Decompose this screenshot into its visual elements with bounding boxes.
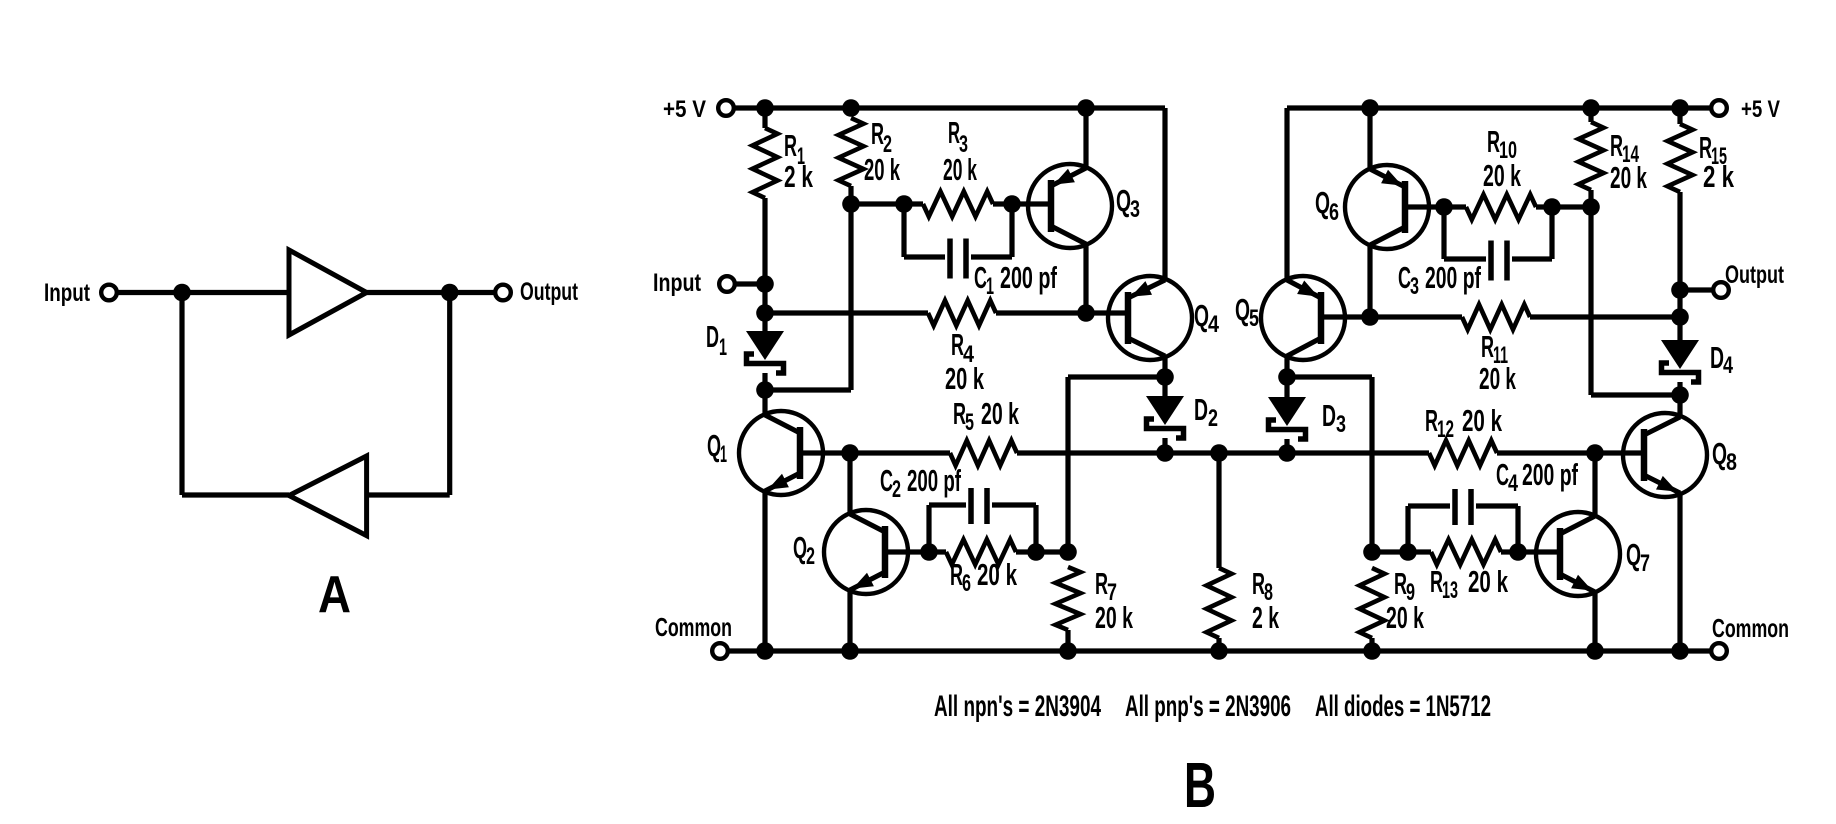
label Output (fig A) [520,278,578,306]
wire [1017,450,1429,455]
node [1586,642,1604,660]
wire [1016,549,1068,554]
node [1509,543,1527,561]
label R8 [1252,566,1273,606]
label R11 [1481,329,1508,369]
svg-text:7: 7 [1640,550,1650,577]
resistor R1 [753,128,778,198]
svg-text:4: 4 [1508,470,1518,497]
wire [929,549,946,554]
node [1671,308,1689,326]
svg-text:20 k: 20 k [1479,361,1516,396]
capacitor C2 [929,488,1036,552]
transistor Q5 [1261,276,1345,360]
svg-text:5: 5 [1249,305,1259,332]
+5V terminal left [718,100,734,116]
label R11 value [1479,361,1516,396]
label +5 V left [663,96,706,123]
wire [117,290,289,295]
svg-text:1: 1 [720,441,727,468]
label A [318,566,351,624]
svg-text:2: 2 [1208,405,1218,432]
label Q6 [1315,185,1339,226]
resistor R5 [950,441,1017,466]
svg-text:Q: Q [1235,292,1250,327]
label Q4 [1194,298,1220,338]
wire [367,492,450,497]
svg-text:20 k: 20 k [1462,403,1502,438]
label R6 [950,557,971,597]
wire [993,201,1051,206]
wire [1677,108,1682,124]
node [756,304,774,322]
label R15 value [1703,159,1735,194]
wire [1370,314,1462,319]
svg-text:20 k: 20 k [1095,600,1133,635]
node [1543,198,1561,216]
svg-text:20 k: 20 k [943,152,977,187]
svg-text:20 k: 20 k [864,152,900,187]
wire [762,108,767,128]
label Q5 [1235,292,1259,332]
label R2 [871,116,892,158]
transistor Q8 [1623,413,1707,497]
svg-text:D: D [706,319,719,354]
wire Q5 base [1321,314,1370,319]
svg-text:2: 2 [806,543,815,570]
label R8 value [1252,600,1279,635]
svg-text:All npn's = 2N3904: All npn's = 2N3904 [934,690,1101,723]
label R10 value [1483,158,1521,193]
label C4 [1496,457,1518,497]
node [1671,642,1689,660]
wire [1162,438,1167,453]
label R3 value [943,152,977,187]
svg-text:A: A [318,566,351,624]
node [1156,444,1174,462]
label D3 [1322,398,1346,438]
svg-text:Q: Q [793,530,807,565]
wire [1065,630,1070,651]
output terminal [1713,282,1729,298]
node [1059,642,1077,660]
diode D1 [746,331,784,373]
svg-text:Q: Q [1712,436,1727,471]
label R9 value [1386,600,1424,635]
node input (fig A) [173,284,191,302]
transistor Q6 [1345,165,1429,249]
label R5 value [981,396,1019,431]
transistor Q7 [1536,512,1620,596]
transistor Q2 [824,510,908,594]
svg-text:Q: Q [707,428,721,463]
node [1363,543,1381,561]
label R3 [948,115,968,158]
svg-text:Common: Common [655,612,732,642]
svg-text:D: D [1194,392,1208,427]
svg-text:3: 3 [1336,411,1346,438]
label R6 value [977,557,1017,592]
wire [1501,549,1518,554]
svg-text:1: 1 [719,334,727,361]
wire Q7 emitter [1592,592,1597,651]
resistor R4 [928,301,996,326]
wire [1216,453,1221,568]
wire [1677,317,1682,340]
capacitor C1 [904,204,1012,279]
label R10 [1487,124,1517,164]
+5V terminal right [1711,100,1727,116]
svg-text:6: 6 [962,570,971,597]
wire [762,198,767,284]
svg-text:Input: Input [653,269,702,297]
label C4 value [1522,457,1578,492]
wire Q4 collector [1162,356,1167,377]
label +5 V right [1741,96,1780,123]
wire [1068,374,1165,379]
svg-text:All pnp's = 2N3906: All pnp's = 2N3906 [1125,690,1291,723]
wire Q7 base [1518,549,1560,554]
node output [1671,281,1689,299]
node [1582,198,1600,216]
buffer amplifier feedback (fig A) [289,456,367,536]
svg-text:+5 V: +5 V [1741,96,1780,123]
wire [1688,287,1713,292]
wire [1588,207,1593,395]
node [842,195,860,213]
wire [182,492,289,497]
wire [1284,377,1289,397]
wire [1216,638,1221,651]
input terminal [719,276,735,292]
node [1077,304,1095,322]
svg-text:200 pf: 200 pf [1522,457,1578,492]
svg-text:Output: Output [520,278,578,306]
wire [1372,549,1408,554]
svg-text:4: 4 [1723,352,1733,379]
wire Q6 collector [1367,245,1372,317]
node [1582,99,1600,117]
label R13 [1430,564,1458,604]
label Output [1725,261,1784,289]
node [895,195,913,213]
svg-text:4: 4 [1208,311,1220,338]
node [1059,543,1077,561]
wire [1497,450,1644,455]
svg-text:2 k: 2 k [784,159,814,194]
label D1 [706,319,727,361]
wire [1284,439,1289,453]
resistor R13 [1431,540,1501,565]
wire [179,293,184,496]
wire Q2 emitter [847,590,852,651]
wire Q1 emitter [762,491,767,651]
svg-text:3: 3 [1410,273,1419,300]
wire [765,387,851,392]
wire [1536,204,1591,209]
wire +5V rail left [734,105,1165,110]
resistor R2 [839,118,864,186]
node [1003,195,1021,213]
label R4 value [945,361,984,396]
label Q8 [1712,436,1737,476]
node [1399,543,1417,561]
label R7 [1095,566,1117,606]
label R1 [784,128,805,170]
svg-text:D: D [1710,340,1724,375]
resistor R3 [923,192,993,217]
svg-text:Q: Q [1315,185,1330,220]
wire Q5 collector [1284,356,1289,377]
figure A output terminal [495,285,511,301]
svg-text:20 k: 20 k [1468,564,1508,599]
wire Q2 collector [847,453,852,514]
node [1210,444,1228,462]
wire Q1 collector [762,390,767,415]
svg-text:3: 3 [1130,196,1140,223]
node [1586,444,1604,462]
wire [1408,549,1431,554]
wire [1677,382,1682,395]
node input [756,275,774,293]
resistor R7 [1056,567,1081,630]
svg-text:200 pf: 200 pf [1000,260,1057,295]
wire [762,373,767,390]
transistor Q1 [739,411,823,495]
label Input (fig A) [44,279,91,307]
node [920,543,938,561]
wire Q7 collector [1592,453,1597,516]
node [1278,444,1296,462]
svg-text:Q: Q [1626,537,1641,572]
label C1 value [1000,260,1057,295]
wire +5V rail right [1287,105,1711,110]
capacitor C3 [1444,207,1552,281]
node [1027,543,1045,561]
figure A input terminal [101,285,117,301]
svg-text:D: D [1322,398,1336,433]
svg-text:200 pf: 200 pf [1425,260,1481,295]
svg-text:20 k: 20 k [945,361,984,396]
svg-text:20 k: 20 k [1386,600,1424,635]
label R14 value [1610,160,1647,195]
svg-text:+5 V: +5 V [663,96,706,123]
resistor R8 [1207,568,1232,638]
svg-text:Input: Input [44,279,91,307]
wire Q8 collector [1677,395,1682,417]
common terminal right [1711,643,1727,659]
node [1361,99,1379,117]
svg-text:2: 2 [892,476,901,503]
node [842,99,860,117]
wire [1530,314,1680,319]
resistor R15 [1668,124,1693,192]
capacitor C4 [1408,489,1518,552]
svg-text:Q: Q [1194,298,1209,333]
wire Q2 base [885,549,929,554]
node [1210,642,1228,660]
wire Q1 base [800,450,850,455]
node [1278,368,1296,386]
wire [848,186,853,204]
diode D3 [1268,397,1306,439]
svg-text:200 pf: 200 pf [907,463,961,498]
label R7 value [1095,600,1133,635]
diode D2 [1146,396,1184,438]
svg-text:2 k: 2 k [1703,159,1735,194]
label B [1184,749,1216,821]
svg-text:All diodes = 1N5712: All diodes = 1N5712 [1315,690,1491,723]
wire [447,293,452,496]
wire [851,201,923,206]
resistor R6 [946,540,1016,565]
label R5 [953,396,974,436]
wire [1588,190,1593,207]
node [841,642,859,660]
transistor Q3 [1028,164,1112,248]
node [1156,368,1174,386]
common terminal left [712,643,728,659]
wire [1369,638,1374,651]
label D2 [1194,392,1218,432]
node [756,381,774,399]
wire [762,313,767,331]
label Q1 [707,428,727,468]
wire [367,290,496,295]
label C1 [974,260,994,300]
label R2 value [864,152,900,187]
label C2 [880,463,901,503]
svg-text:20 k: 20 k [1610,160,1647,195]
resistor R12 [1429,441,1497,466]
wire [1287,374,1372,379]
svg-text:8: 8 [1726,449,1737,476]
wire Q3 emitter [1083,108,1088,168]
wire Q5 emitter [1284,108,1289,280]
label Q2 [793,530,815,570]
label R1 value [784,159,814,194]
resistor R11 [1462,305,1530,330]
node [1671,99,1689,117]
wire [762,284,767,313]
wire [1591,392,1680,397]
node [1363,642,1381,660]
label C3 value [1425,260,1481,295]
label R4 [951,327,975,368]
label D4 [1710,340,1733,379]
wire Q6 base [1405,204,1444,209]
label R9 [1394,566,1415,606]
label R14 [1610,128,1639,168]
wire [735,281,765,286]
label Common left [655,612,732,642]
diode D4 [1661,340,1699,382]
label R13 value [1468,564,1508,599]
wire [1369,377,1374,552]
label Q7 [1626,537,1650,577]
wire [1162,377,1167,396]
wire Q6 emitter [1367,108,1372,169]
label C3 [1398,260,1419,300]
wire [850,450,950,455]
transistor Q4 [1108,276,1192,360]
node [1671,386,1689,404]
caption diodes [1315,690,1491,723]
resistor R9 [1360,568,1385,638]
svg-text:13: 13 [1442,577,1458,604]
node output (fig A) [441,284,459,302]
svg-text:20 k: 20 k [977,557,1017,592]
node [1077,99,1095,117]
svg-text:Common: Common [1712,613,1789,643]
svg-text:5: 5 [965,409,974,436]
node [756,642,774,660]
svg-text:R: R [784,128,797,163]
wire [1677,192,1682,317]
wire [1588,108,1593,122]
node [1435,198,1453,216]
label Input [653,269,702,297]
wire Q3 collector [1083,244,1088,313]
wire [765,310,928,315]
wire Q4 emitter [1162,108,1167,280]
caption pnp [1125,690,1291,723]
node [841,444,859,462]
caption npn [934,690,1101,723]
label Q3 [1116,183,1140,223]
resistor R10 [1466,195,1536,220]
label R12 [1425,403,1454,443]
svg-text:6: 6 [1329,199,1339,226]
svg-text:20 k: 20 k [981,396,1019,431]
label R15 [1699,130,1727,170]
node [1361,308,1379,326]
wire [848,204,853,390]
svg-text:20 k: 20 k [1483,158,1521,193]
label C2 value [907,463,961,498]
buffer amplifier forward (fig A) [289,250,367,335]
wire [1065,377,1070,552]
svg-text:Q: Q [1116,183,1131,218]
svg-text:12: 12 [1437,416,1454,443]
wire [1444,204,1466,209]
svg-text:Output: Output [1725,261,1784,289]
label R12 value [1462,403,1502,438]
svg-text:2 k: 2 k [1252,600,1279,635]
wire Q8 emitter [1677,493,1682,651]
node [756,99,774,117]
wire common rail [728,648,1711,653]
svg-text:B: B [1184,749,1216,821]
resistor R14 [1579,122,1604,190]
label Common right [1712,613,1789,643]
wire [996,310,1128,315]
